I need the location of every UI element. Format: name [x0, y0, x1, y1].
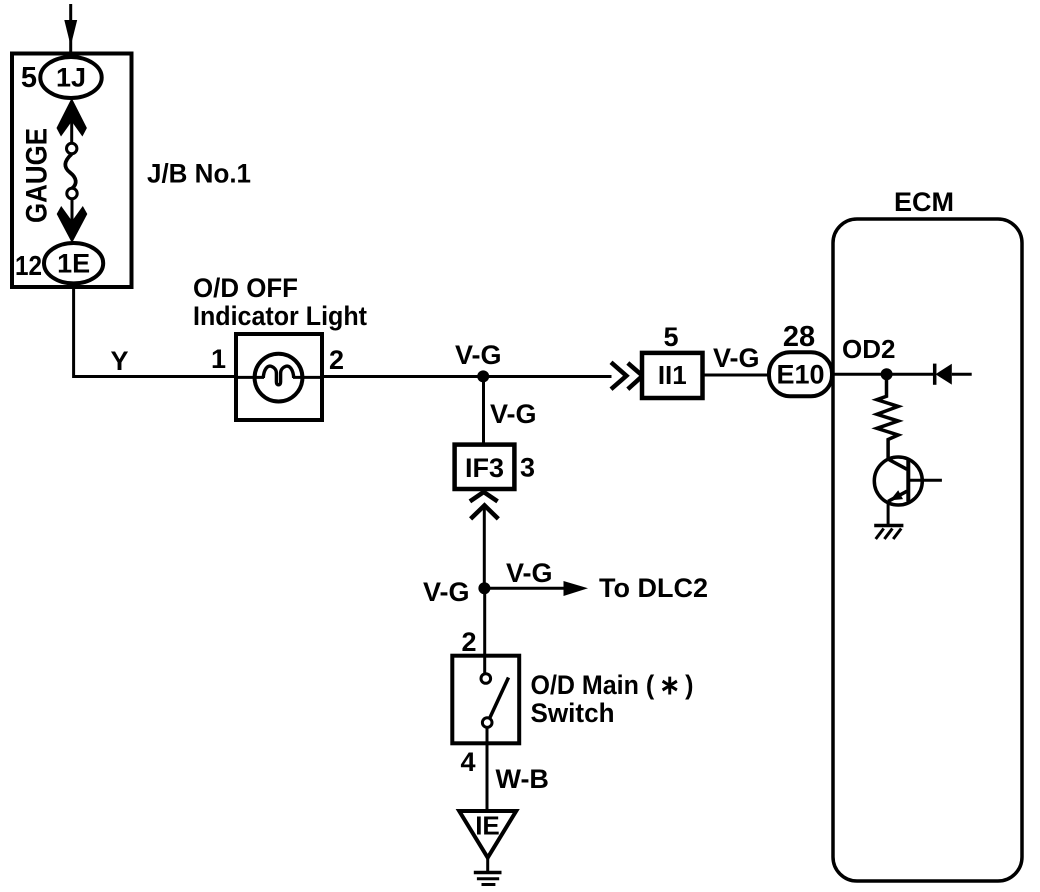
junction connector II1 [642, 353, 703, 398]
svg-text:E10: E10 [776, 360, 824, 390]
fuse GAUGE: wire [71, 198, 74, 222]
diode D1 (cathode bar) [935, 364, 952, 385]
wire: IE to chassis ground [486, 858, 489, 872]
node OD2 junction [881, 368, 893, 380]
svg-text:Switch: Switch [531, 698, 615, 728]
arrowhead on power feed wire [64, 20, 77, 46]
svg-text:V-G: V-G [455, 340, 502, 370]
connector 1E [44, 243, 103, 283]
svg-text:5: 5 [663, 322, 678, 352]
wire: node down to connector IF3 [482, 376, 485, 444]
wire: chevrons down to DLC2 branch node [483, 506, 486, 588]
connector direction chevrons before II1 [611, 362, 626, 389]
fuse GAUGE: top terminal circle [67, 143, 77, 153]
chassis ground symbol [474, 873, 502, 885]
svg-text:II1: II1 [658, 360, 687, 390]
node: V-G junction at indicator circuit [477, 370, 489, 382]
wire: node down to O/D main switch pin 2 [483, 588, 486, 673]
wire: node to diode [887, 373, 935, 376]
switch upper contact [481, 674, 491, 684]
wire: emitter to internal ground [887, 501, 890, 526]
svg-text:1: 1 [211, 344, 226, 374]
svg-text:Y: Y [110, 346, 128, 376]
connector E10 [769, 352, 832, 396]
svg-text:1J: 1J [56, 63, 86, 93]
svg-text:V-G: V-G [490, 399, 537, 429]
svg-text:OD2: OD2 [842, 334, 895, 364]
fuse GAUGE: bottom arrow [57, 206, 88, 243]
ECM internal ground symbol [874, 526, 903, 540]
connector IF3 [455, 445, 515, 489]
connector 1J [40, 57, 101, 98]
svg-text:W-B: W-B [496, 764, 549, 794]
svg-text:1E: 1E [57, 249, 90, 279]
svg-text:Indicator Light: Indicator Light [193, 301, 367, 331]
wire: E10 into ECM node [832, 373, 887, 376]
fuse GAUGE: top arrow [57, 98, 87, 137]
wire: branch to DLC2 [484, 587, 566, 590]
arrowhead to DLC2 [564, 581, 589, 596]
O/D OFF indicator light box [236, 334, 322, 420]
svg-text:4: 4 [460, 747, 475, 777]
svg-text:2: 2 [461, 627, 476, 657]
ECM box [833, 219, 1022, 881]
svg-text:3: 3 [520, 453, 535, 483]
wire W-B: switch pin 4 to ground connector IE [486, 728, 489, 812]
wire Y: from 1E down and right to indicator light pin 1 [74, 283, 236, 376]
bulb symbol of indicator light [255, 354, 303, 402]
wire V-G: II1 to E10 [703, 374, 770, 377]
svg-text:2: 2 [329, 345, 344, 375]
wire: diode anode [952, 373, 972, 376]
svg-text:V-G: V-G [423, 577, 470, 607]
fuse GAUGE: bottom terminal circle [67, 188, 77, 198]
wire: power feed into J/B from top [69, 4, 72, 53]
node: V-G branch to DLC2 [478, 582, 490, 594]
svg-text:12: 12 [15, 250, 42, 281]
svg-text:V-G: V-G [506, 558, 553, 588]
O/D main switch box [452, 656, 519, 744]
svg-text:GAUGE: GAUGE [21, 128, 54, 223]
junction block J/B No.1 box [12, 54, 132, 288]
wire V-G: from indicator light pin 2 to junction connector II1 [293, 376, 322, 379]
svg-text:O/D OFF: O/D OFF [193, 273, 298, 303]
fuse GAUGE: wire [70, 121, 73, 144]
switch lower contact [482, 718, 492, 728]
svg-text:ECM: ECM [894, 187, 954, 217]
svg-text:J/B No.1: J/B No.1 [147, 159, 251, 189]
transistor Q1 [874, 457, 942, 505]
svg-text:28: 28 [783, 321, 815, 353]
svg-text:5: 5 [21, 62, 37, 94]
connector direction chevrons below IF3 [470, 492, 498, 501]
svg-text:To DLC2: To DLC2 [599, 573, 708, 603]
svg-text:IE: IE [475, 811, 500, 841]
ground connector IE triangle [459, 811, 516, 858]
svg-text:V-G: V-G [713, 343, 760, 373]
fuse GAUGE: element wiggle [65, 154, 75, 189]
resistor R1 [877, 380, 898, 459]
switch lever [490, 678, 509, 719]
svg-text:O/D Main ( ∗ ): O/D Main ( ∗ ) [531, 670, 694, 700]
svg-text:IF3: IF3 [465, 453, 504, 483]
